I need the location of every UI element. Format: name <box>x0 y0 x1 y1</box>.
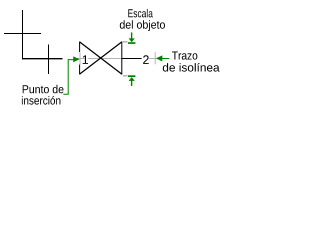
white box behind label 2 <box>142 52 150 64</box>
scale marker bottom tick bar <box>128 75 135 77</box>
grip cross at insertion point <box>74 52 86 65</box>
wire: source line 1 horizontal <box>4 33 41 35</box>
scale marker top arrowhead pointing down <box>129 38 135 42</box>
label: Escala <box>128 9 153 18</box>
arrowhead pointing right at insertion point <box>73 56 79 62</box>
leader for Punto de insercion (green) <box>63 60 73 95</box>
valve symbol right edge <box>121 42 123 75</box>
label: Punto de <box>23 85 64 94</box>
isoline gray segment through valve <box>80 58 122 60</box>
wire: source line 2 horizontal <box>22 58 63 60</box>
scale marker top tick bar <box>128 42 135 44</box>
valve symbol left edge <box>79 42 81 75</box>
label: Trazo <box>172 52 197 60</box>
label: insercion <box>22 96 61 105</box>
label 2 (grip number) <box>143 55 149 64</box>
valve symbol diagonal B <box>80 42 122 74</box>
label: de isolinea <box>163 63 220 72</box>
grip cross at isoline end <box>149 52 161 64</box>
white box behind label 1 <box>79 52 88 65</box>
valve symbol diagonal A <box>80 42 122 74</box>
arrowhead pointing left at isoline grip <box>156 55 162 61</box>
gray tick top right of valve <box>123 41 128 43</box>
label 1 (grip number) <box>83 55 88 64</box>
scale marker bottom arrowhead pointing up <box>129 77 135 81</box>
scale marker top stem (green) <box>131 32 133 38</box>
label: del objeto <box>120 20 165 31</box>
wire: pipe line right of valve <box>122 58 153 60</box>
scale marker bottom stem (green) <box>131 81 133 87</box>
leader for Trazo de isolinea (green) <box>162 58 169 60</box>
wire: source line 1 vertical <box>22 10 24 60</box>
wire: source line 2 vertical <box>48 45 50 75</box>
gray tick bottom right of valve <box>123 75 128 77</box>
